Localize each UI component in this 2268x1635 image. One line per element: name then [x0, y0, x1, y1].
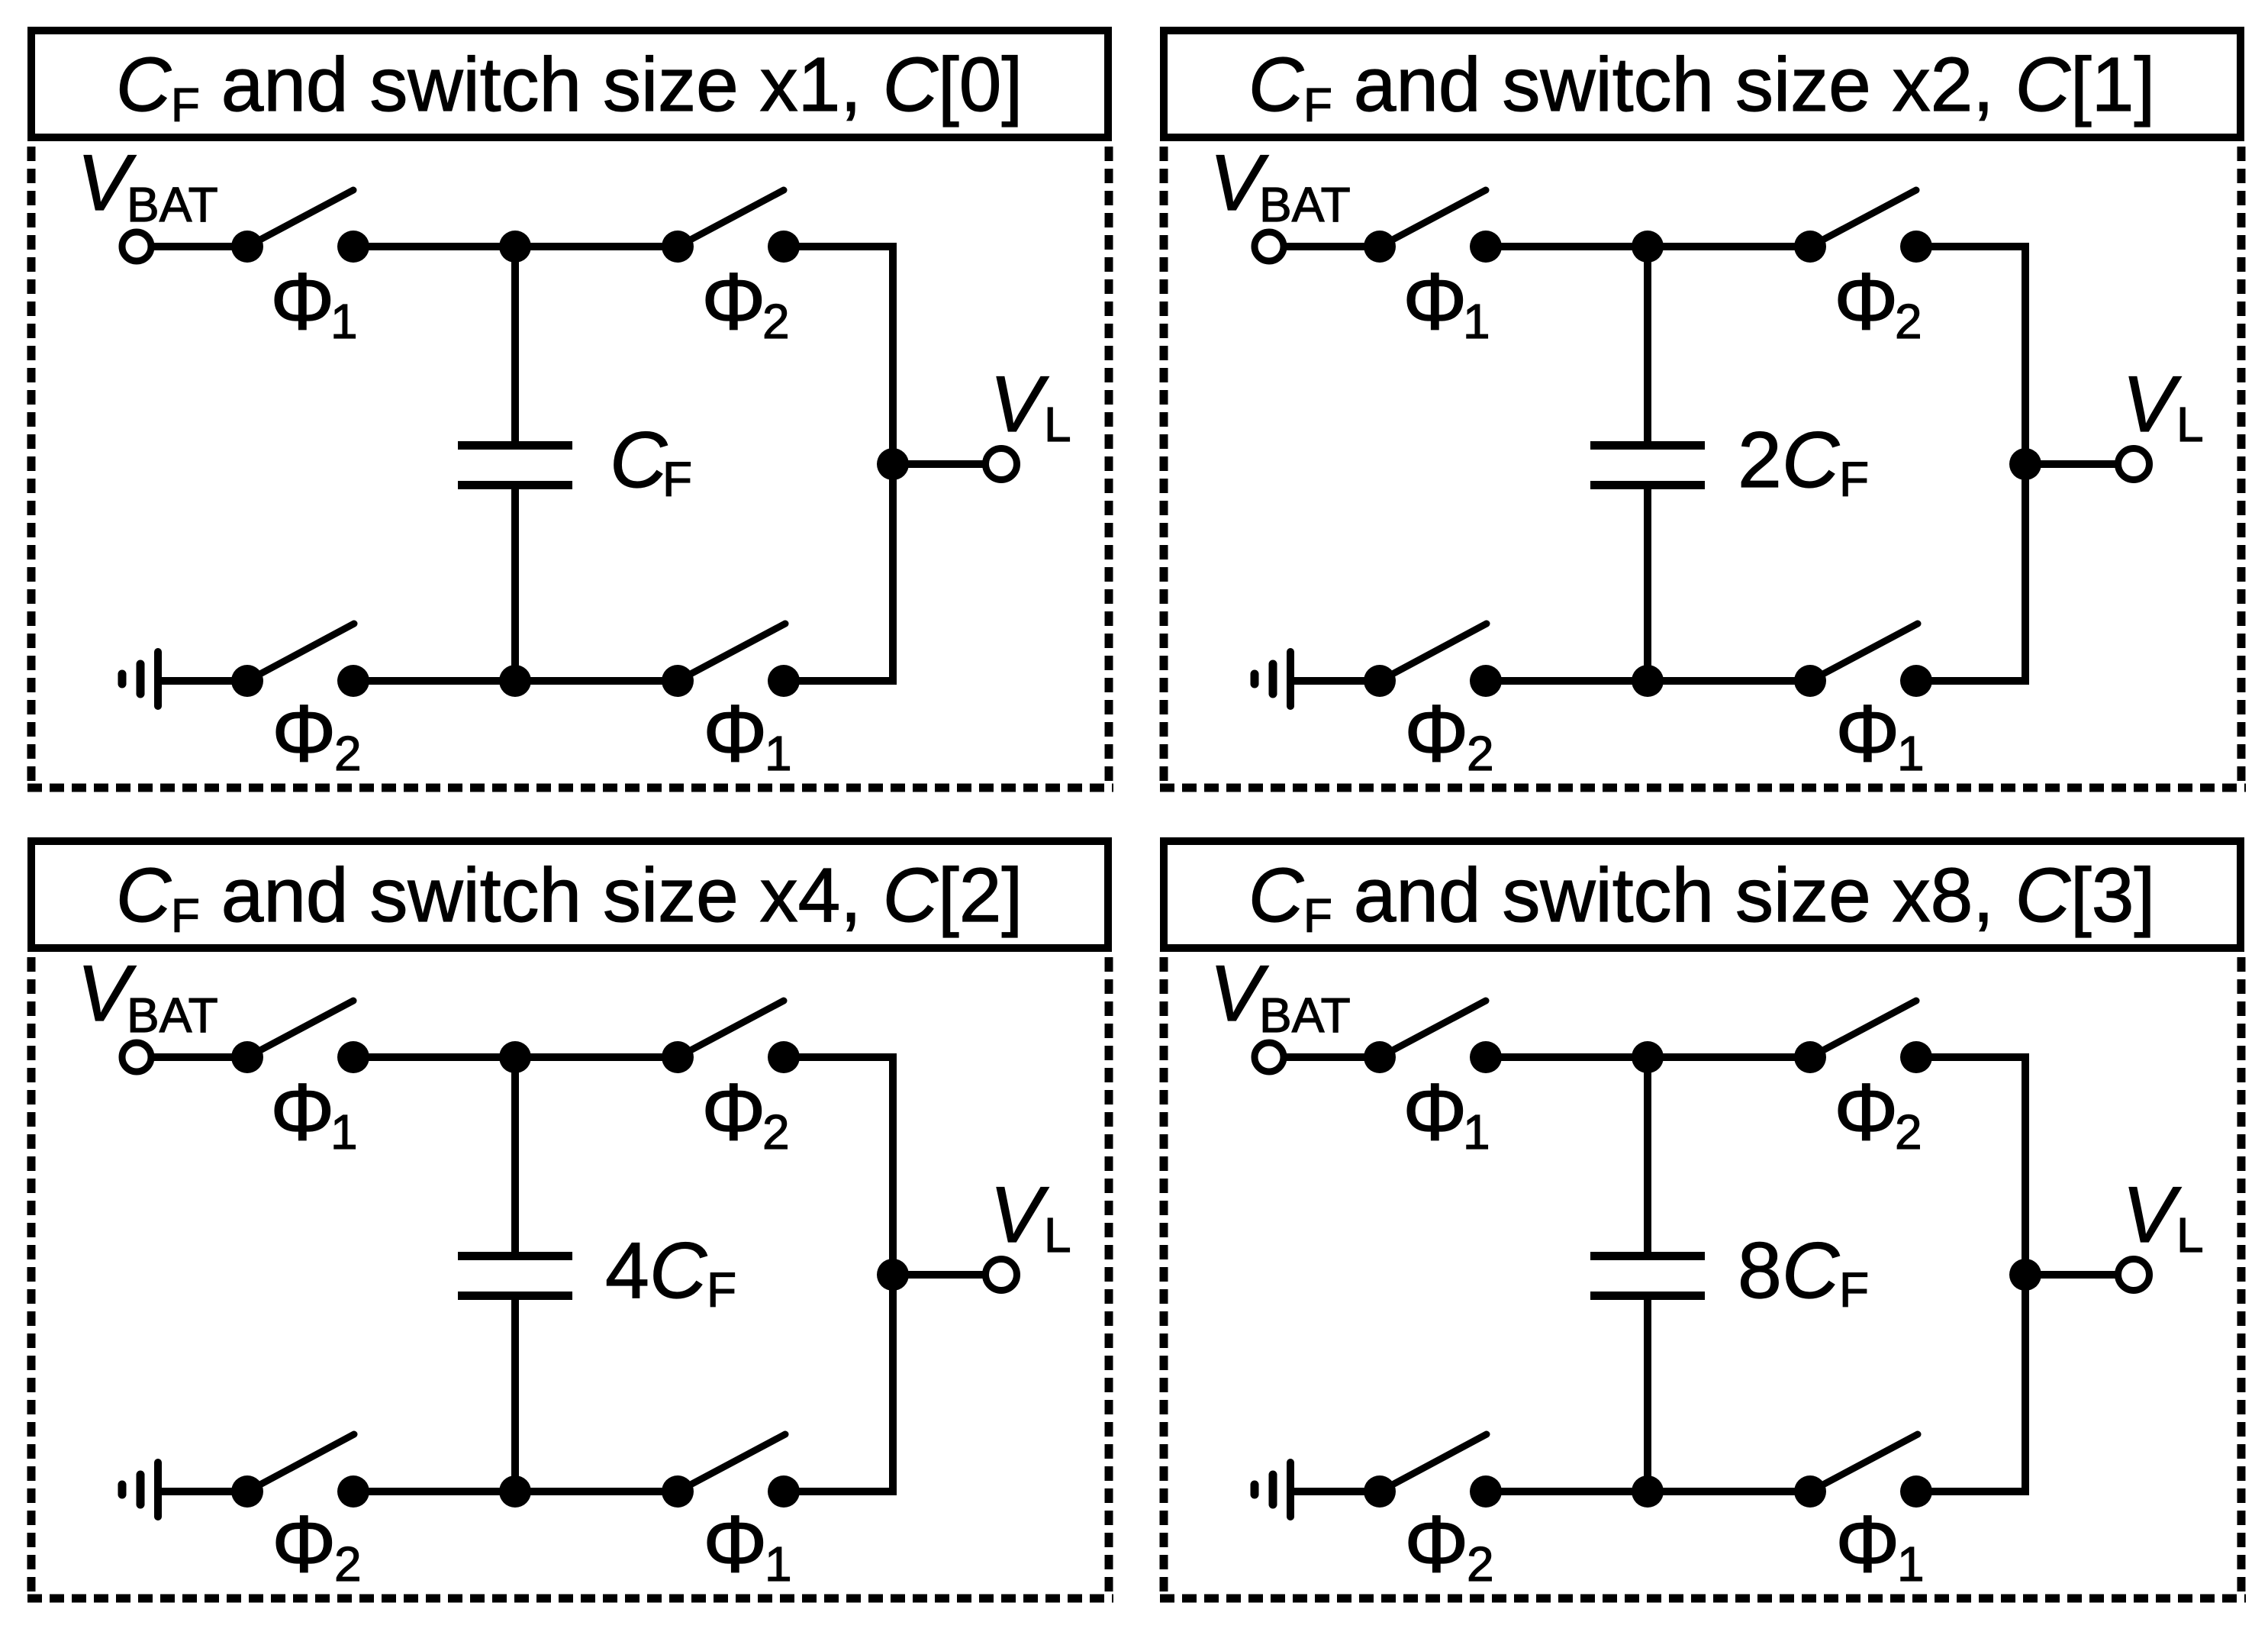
- wire top node to capacitor top plate, panel C3: [1644, 1053, 1651, 1255]
- svg-text:F: F: [1839, 452, 1869, 507]
- panel C2 title box: [31, 841, 1108, 948]
- node VBAT input terminal, panel C2: [122, 1043, 151, 1072]
- node VL output terminal, panel C2: [986, 1259, 1017, 1291]
- switch S2 (phase 2) lever, panel C2: [678, 1001, 784, 1057]
- switch S1 right contact dot, panel C2: [337, 1041, 369, 1073]
- label PHI1 for switch S1, panel C0: [270, 256, 358, 349]
- wire top node to capacitor top plate, panel C2: [511, 1053, 519, 1255]
- label VL, panel C0: [990, 360, 1071, 452]
- switch S1 right contact dot, panel C1: [1470, 231, 1502, 263]
- panel C1 title box: [1164, 31, 2241, 137]
- junction dot top capacitor node, panel C0: [499, 231, 531, 263]
- wire VL node to VL terminal, panel C1: [2025, 460, 2118, 468]
- wire capacitor bottom plate to bottom node, panel C0: [511, 486, 519, 685]
- switch S3 right contact dot, panel C1: [1470, 665, 1502, 697]
- svg-text:1: 1: [330, 294, 358, 349]
- svg-text:L: L: [2176, 1208, 2204, 1263]
- panel C2 dashed border left side: [27, 957, 36, 1598]
- switch S3 (phase 2) lever, panel C0: [247, 624, 354, 681]
- svg-text:CF and switch size x1, C[0]: CF and switch size x1, C[0]: [116, 42, 1023, 132]
- wire capacitor bottom plate to bottom node, panel C3: [1644, 1297, 1651, 1495]
- wire VBAT terminal to switch S1, panel C2: [151, 1053, 247, 1061]
- label VL, panel C2: [990, 1171, 1071, 1263]
- svg-text:V: V: [990, 360, 1049, 449]
- svg-text:CF and switch size x2, C[1]: CF and switch size x2, C[1]: [1248, 42, 2155, 132]
- junction dot bottom capacitor node, panel C3: [1632, 1475, 1664, 1508]
- svg-text:2: 2: [1895, 1105, 1922, 1159]
- wire VL node to VL terminal, panel C0: [893, 460, 985, 468]
- switch S3 (phase 2) lever, panel C2: [247, 1434, 354, 1491]
- label PHI2 for switch S3, panel C0: [272, 689, 362, 781]
- switch S2 left contact dot, panel C3: [1794, 1041, 1826, 1073]
- label VBAT, panel C0: [77, 139, 218, 232]
- label PHI1 for switch S4, panel C2: [703, 1499, 792, 1591]
- svg-text:BAT: BAT: [127, 177, 218, 232]
- wire VBAT terminal to switch S1, panel C3: [1284, 1053, 1380, 1061]
- wire ground to switch S3, panel C1: [1290, 677, 1380, 685]
- junction dot top capacitor node, panel C2: [499, 1041, 531, 1073]
- junction dot VL output node, panel C2: [877, 1259, 909, 1291]
- wire switch S3 to bottom node, panel C3: [1486, 1488, 1810, 1495]
- switch S4 (phase 1) lever, panel C2: [678, 1434, 785, 1491]
- svg-text:Φ: Φ: [1403, 1067, 1467, 1157]
- label VBAT, panel C2: [77, 950, 218, 1043]
- svg-text:BAT: BAT: [1259, 988, 1351, 1043]
- node VL output terminal, panel C3: [2118, 1259, 2150, 1291]
- capacitor 4CF bottom plate, panel C2: [458, 1292, 572, 1300]
- svg-text:2: 2: [334, 1537, 362, 1591]
- switch S1 (phase 1) lever, panel C1: [1380, 190, 1486, 247]
- svg-text:2: 2: [1467, 726, 1494, 781]
- switch S1 left contact dot, panel C1: [1364, 231, 1396, 263]
- label PHI1 for switch S1, panel C1: [1403, 256, 1490, 349]
- node VBAT input terminal, panel C1: [1255, 232, 1284, 261]
- label PHI2 for switch S2, panel C2: [701, 1067, 790, 1159]
- svg-text:1: 1: [1463, 294, 1490, 349]
- switch S3 left contact dot, panel C3: [1364, 1475, 1396, 1508]
- wire top node to capacitor top plate, panel C0: [511, 243, 519, 444]
- ground symbol, panel C1: [1255, 652, 1290, 706]
- switch S1 right contact dot, panel C3: [1470, 1041, 1502, 1073]
- switch S4 right contact dot, panel C3: [1900, 1475, 1932, 1508]
- svg-text:1: 1: [1463, 1105, 1490, 1159]
- wire ground to switch S3, panel C0: [158, 677, 247, 685]
- wire VL node to VL terminal, panel C3: [2025, 1271, 2118, 1279]
- svg-text:2: 2: [1895, 294, 1922, 349]
- junction dot VL output node, panel C1: [2009, 448, 2041, 480]
- wire switch S1 to top node, panel C2: [353, 1053, 678, 1061]
- capacitor 2CF top plate, panel C1: [1590, 441, 1705, 450]
- panel C2 dashed border bottom side: [27, 1595, 1113, 1603]
- panel C0 dashed border bottom side: [27, 784, 1113, 792]
- svg-text:CF and switch size x8, C[3]: CF and switch size x8, C[3]: [1248, 853, 2155, 943]
- junction dot bottom capacitor node, panel C1: [1632, 665, 1664, 697]
- wire VL node to VL terminal, panel C2: [893, 1271, 985, 1279]
- wire switch S1 to top node, panel C0: [353, 243, 678, 250]
- svg-text:Φ: Φ: [701, 256, 766, 347]
- svg-text:1: 1: [330, 1105, 358, 1159]
- switch S1 left contact dot, panel C2: [231, 1041, 263, 1073]
- svg-text:Φ: Φ: [1404, 689, 1469, 779]
- svg-text:L: L: [2176, 397, 2204, 452]
- label PHI1 for switch S1, panel C2: [270, 1067, 358, 1159]
- junction dot top capacitor node, panel C1: [1632, 231, 1664, 263]
- label PHI1 for switch S4, panel C0: [703, 689, 792, 781]
- switch S2 right contact dot, panel C0: [768, 231, 800, 263]
- wire switch S1 to top node, panel C1: [1486, 243, 1810, 250]
- svg-text:Φ: Φ: [1404, 1499, 1469, 1589]
- panel C2 dashed border right side: [1105, 957, 1113, 1598]
- capacitor 8CF bottom plate, panel C3: [1590, 1292, 1705, 1300]
- switch S3 left contact dot, panel C2: [231, 1475, 263, 1508]
- switch S3 right contact dot, panel C0: [337, 665, 369, 697]
- label PHI2 for switch S3, panel C3: [1404, 1499, 1494, 1591]
- svg-text:Φ: Φ: [272, 1499, 337, 1589]
- svg-text:1: 1: [1897, 1537, 1925, 1591]
- panel C0 dashed border right side: [1105, 147, 1113, 788]
- label PHI1 for switch S4, panel C1: [1835, 689, 1925, 781]
- node VBAT input terminal, panel C0: [122, 232, 151, 261]
- wire VBAT terminal to switch S1, panel C1: [1284, 243, 1380, 250]
- switch S1 right contact dot, panel C0: [337, 231, 369, 263]
- svg-text:CF and switch size x4, C[2]: CF and switch size x4, C[2]: [116, 853, 1023, 943]
- label VBAT, panel C1: [1210, 139, 1351, 232]
- svg-text:8: 8: [1738, 1227, 1782, 1315]
- panel C3 title box: [1164, 841, 2241, 948]
- wire ground to switch S3, panel C3: [1290, 1488, 1380, 1495]
- switch S2 right contact dot, panel C1: [1900, 231, 1932, 263]
- svg-text:V: V: [990, 1171, 1049, 1259]
- switch S3 (phase 2) lever, panel C1: [1380, 624, 1487, 681]
- switch S1 (phase 1) lever, panel C2: [247, 1001, 353, 1057]
- node VL output terminal, panel C0: [986, 449, 1017, 480]
- panel C1 dashed border bottom side: [1160, 784, 2246, 792]
- svg-text:Φ: Φ: [701, 1067, 766, 1157]
- switch S2 right contact dot, panel C3: [1900, 1041, 1932, 1073]
- svg-text:Φ: Φ: [1835, 1499, 1900, 1589]
- svg-text:Φ: Φ: [272, 689, 337, 779]
- switch S4 left contact dot, panel C3: [1794, 1475, 1826, 1508]
- ground symbol, panel C0: [122, 652, 158, 706]
- wire switch S3 to bottom node, panel C1: [1486, 677, 1810, 685]
- svg-text:C: C: [610, 416, 668, 505]
- svg-text:BAT: BAT: [1259, 177, 1351, 232]
- capacitor CF top plate, panel C0: [458, 441, 572, 450]
- switch S2 (phase 2) lever, panel C3: [1810, 1001, 1916, 1057]
- svg-text:L: L: [1044, 397, 1071, 452]
- switch S4 right contact dot, panel C2: [768, 1475, 800, 1508]
- junction dot bottom capacitor node, panel C0: [499, 665, 531, 697]
- capacitor 4CF top plate, panel C2: [458, 1252, 572, 1260]
- capacitor 2CF bottom plate, panel C1: [1590, 481, 1705, 489]
- switch S4 right contact dot, panel C1: [1900, 665, 1932, 697]
- junction dot bottom capacitor node, panel C2: [499, 1475, 531, 1508]
- svg-text:2: 2: [762, 1105, 790, 1159]
- value label 4CF, panel C2: [605, 1227, 736, 1317]
- label PHI2 for switch S3, panel C1: [1404, 689, 1494, 781]
- wire switch S2 to output branch corner and down to bottom row, panel C2: [784, 1057, 893, 1491]
- wire ground to switch S3, panel C2: [158, 1488, 247, 1495]
- switch S4 left contact dot, panel C1: [1794, 665, 1826, 697]
- switch S1 (phase 1) lever, panel C3: [1380, 1001, 1486, 1057]
- label VL, panel C3: [2122, 1171, 2204, 1263]
- wire switch S2 to output branch corner and down to bottom row, panel C1: [1916, 247, 2025, 681]
- switch S1 (phase 1) lever, panel C0: [247, 190, 353, 247]
- switch S4 (phase 1) lever, panel C3: [1810, 1434, 1918, 1491]
- switch S2 right contact dot, panel C2: [768, 1041, 800, 1073]
- svg-text:F: F: [1839, 1263, 1869, 1317]
- label VL, panel C1: [2122, 360, 2204, 452]
- capacitor CF bottom plate, panel C0: [458, 481, 572, 489]
- switch S4 right contact dot, panel C0: [768, 665, 800, 697]
- svg-text:2: 2: [1738, 416, 1782, 505]
- panel C3 dashed border left side: [1160, 957, 1168, 1598]
- svg-text:Φ: Φ: [703, 689, 768, 779]
- wire switch S1 to top node, panel C3: [1486, 1053, 1810, 1061]
- svg-text:Φ: Φ: [703, 1499, 768, 1589]
- wire switch S3 to bottom node, panel C0: [353, 677, 678, 685]
- svg-text:C: C: [1782, 416, 1840, 505]
- panel C3 dashed border right side: [2237, 957, 2246, 1598]
- wire capacitor bottom plate to bottom node, panel C1: [1644, 486, 1651, 685]
- svg-text:Φ: Φ: [1403, 256, 1467, 347]
- wire switch S2 to output branch corner and down to bottom row, panel C3: [1916, 1057, 2025, 1491]
- svg-text:2: 2: [1467, 1537, 1494, 1591]
- value label CF, panel C0: [610, 416, 692, 507]
- svg-text:Φ: Φ: [1835, 689, 1900, 779]
- panel C3 dashed border bottom side: [1160, 1595, 2246, 1603]
- capacitor 8CF top plate, panel C3: [1590, 1252, 1705, 1260]
- switch S4 (phase 1) lever, panel C1: [1810, 624, 1918, 681]
- svg-text:1: 1: [765, 726, 792, 781]
- label PHI2 for switch S2, panel C1: [1834, 256, 1922, 349]
- switch S4 left contact dot, panel C2: [662, 1475, 694, 1508]
- ground symbol, panel C2: [122, 1462, 158, 1517]
- ground symbol, panel C3: [1255, 1462, 1290, 1517]
- wire switch S2 to output branch corner and down to bottom row, panel C0: [784, 247, 893, 681]
- svg-text:F: F: [662, 452, 692, 507]
- switch S2 left contact dot, panel C1: [1794, 231, 1826, 263]
- svg-text:C: C: [649, 1227, 707, 1315]
- panel C1 dashed border left side: [1160, 147, 1168, 788]
- node VBAT input terminal, panel C3: [1255, 1043, 1284, 1072]
- switch S3 left contact dot, panel C0: [231, 665, 263, 697]
- panel C0 title box: [31, 31, 1108, 137]
- label PHI2 for switch S2, panel C3: [1834, 1067, 1922, 1159]
- svg-text:4: 4: [605, 1227, 649, 1315]
- svg-text:BAT: BAT: [127, 988, 218, 1043]
- label PHI1 for switch S4, panel C3: [1835, 1499, 1925, 1591]
- svg-text:1: 1: [1897, 726, 1925, 781]
- svg-text:F: F: [707, 1263, 736, 1317]
- switch S3 right contact dot, panel C3: [1470, 1475, 1502, 1508]
- label VBAT, panel C3: [1210, 950, 1351, 1043]
- junction dot top capacitor node, panel C3: [1632, 1041, 1664, 1073]
- label PHI1 for switch S1, panel C3: [1403, 1067, 1490, 1159]
- svg-text:V: V: [2122, 360, 2182, 449]
- wire VBAT terminal to switch S1, panel C0: [151, 243, 247, 250]
- node VL output terminal, panel C1: [2118, 449, 2150, 480]
- panel C0 dashed border left side: [27, 147, 36, 788]
- switch S4 left contact dot, panel C0: [662, 665, 694, 697]
- value label 2CF, panel C1: [1738, 416, 1869, 507]
- svg-text:C: C: [1782, 1227, 1840, 1315]
- wire top node to capacitor top plate, panel C1: [1644, 243, 1651, 444]
- svg-text:L: L: [1044, 1208, 1071, 1263]
- switch S3 left contact dot, panel C1: [1364, 665, 1396, 697]
- wire capacitor bottom plate to bottom node, panel C2: [511, 1297, 519, 1495]
- value label 8CF, panel C3: [1738, 1227, 1869, 1317]
- label PHI2 for switch S3, panel C2: [272, 1499, 362, 1591]
- switch S2 (phase 2) lever, panel C1: [1810, 190, 1916, 247]
- junction dot VL output node, panel C3: [2009, 1259, 2041, 1291]
- svg-text:Φ: Φ: [270, 1067, 335, 1157]
- svg-text:Φ: Φ: [270, 256, 335, 347]
- junction dot VL output node, panel C0: [877, 448, 909, 480]
- switch S1 left contact dot, panel C0: [231, 231, 263, 263]
- switch S3 right contact dot, panel C2: [337, 1475, 369, 1508]
- panel C1 dashed border right side: [2237, 147, 2246, 788]
- svg-text:1: 1: [765, 1537, 792, 1591]
- svg-text:2: 2: [762, 294, 790, 349]
- switch S2 (phase 2) lever, panel C0: [678, 190, 784, 247]
- switch S1 left contact dot, panel C3: [1364, 1041, 1396, 1073]
- svg-text:Φ: Φ: [1834, 256, 1899, 347]
- switch S2 left contact dot, panel C0: [662, 231, 694, 263]
- switch S3 (phase 2) lever, panel C3: [1380, 1434, 1487, 1491]
- svg-text:Φ: Φ: [1834, 1067, 1899, 1157]
- switch S4 (phase 1) lever, panel C0: [678, 624, 785, 681]
- wire switch S3 to bottom node, panel C2: [353, 1488, 678, 1495]
- switch S2 left contact dot, panel C2: [662, 1041, 694, 1073]
- svg-text:2: 2: [334, 726, 362, 781]
- svg-text:V: V: [2122, 1171, 2182, 1259]
- label PHI2 for switch S2, panel C0: [701, 256, 790, 349]
